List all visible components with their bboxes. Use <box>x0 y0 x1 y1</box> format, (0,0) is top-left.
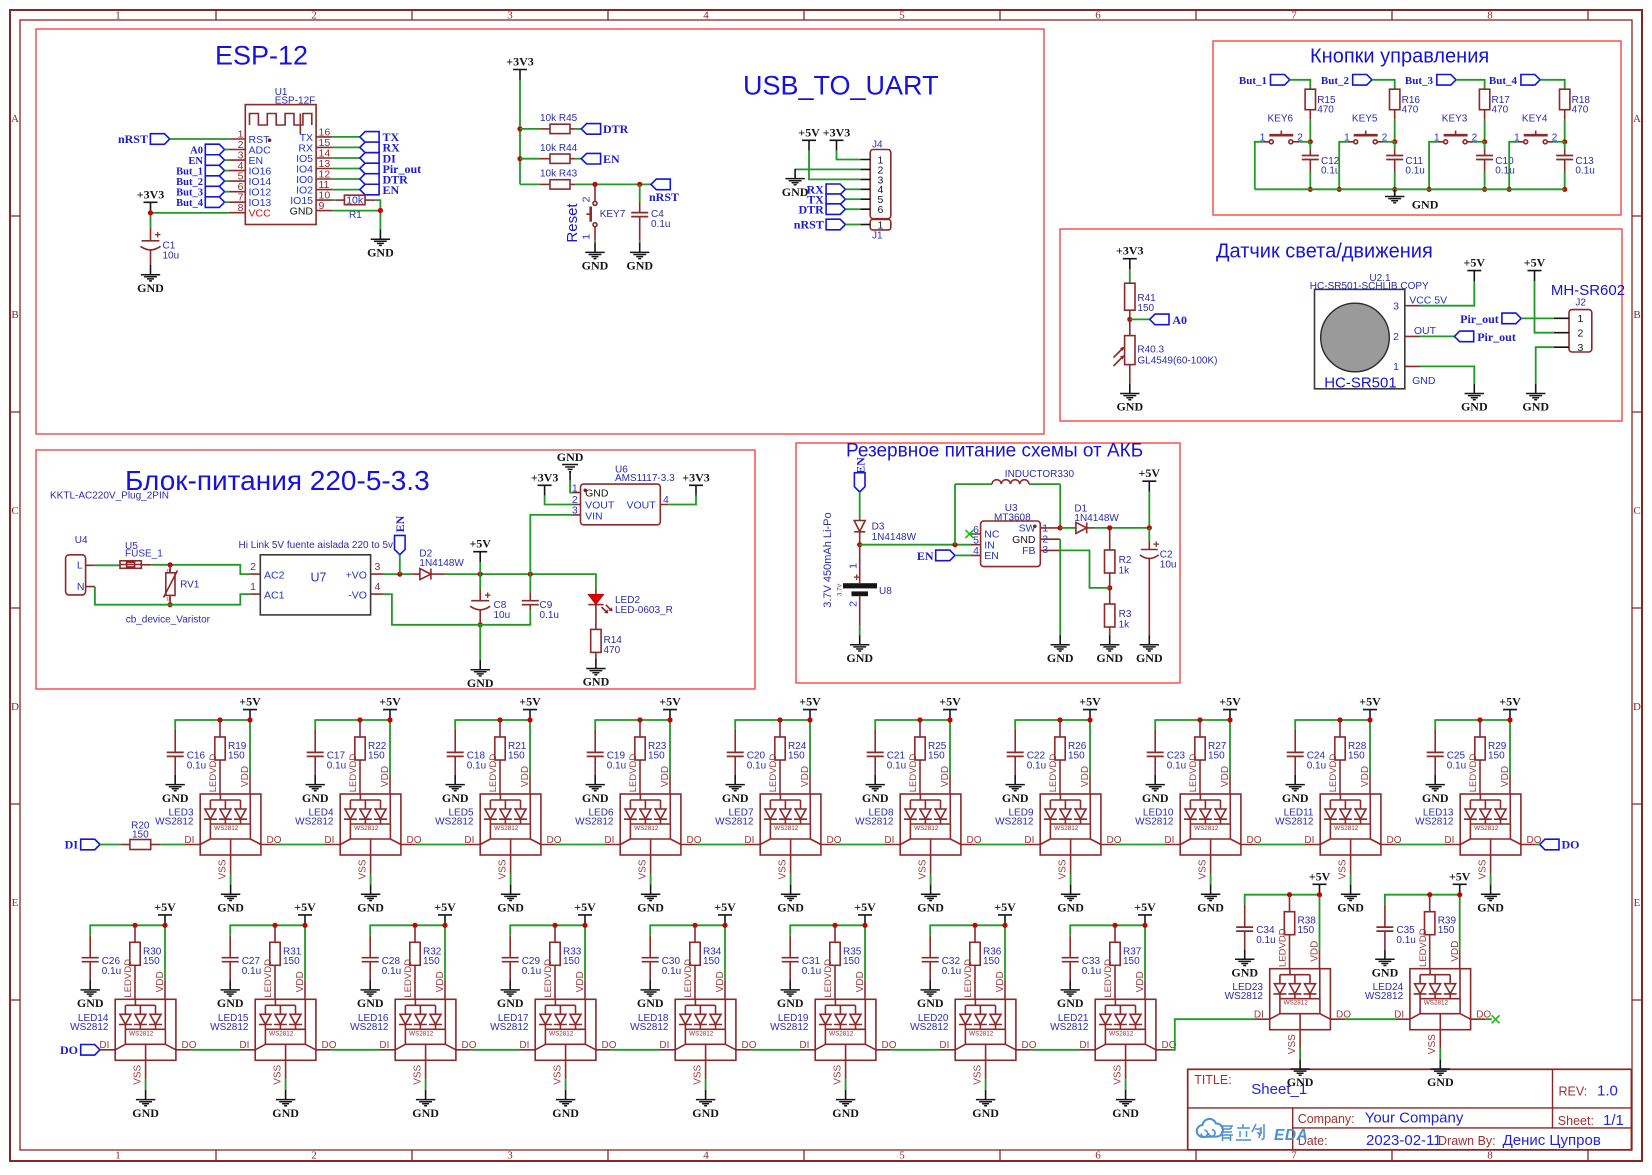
junction <box>412 923 417 928</box>
resistor R44 10k <box>540 143 578 164</box>
resistor R15 470 <box>1305 89 1336 119</box>
resistor R30 150 <box>130 925 162 999</box>
svg-text:470: 470 <box>604 645 621 656</box>
ground <box>217 885 244 915</box>
LED LED5 WS2812 <box>435 754 562 885</box>
junction <box>952 542 957 547</box>
wire <box>1536 844 1540 846</box>
ground <box>442 775 469 805</box>
resistor R35 150 <box>830 925 862 999</box>
svg-text:1: 1 <box>1578 313 1584 325</box>
svg-text:But_1: But_1 <box>1239 75 1267 87</box>
svg-text:Резервное питание схемы от АКБ: Резервное питание схемы от АКБ <box>846 441 1143 462</box>
ground <box>777 980 804 1010</box>
svg-text:LED-0603_R: LED-0603_R <box>615 605 673 616</box>
junction <box>947 717 952 722</box>
wire J2.3 GND <box>1536 347 1554 384</box>
LED LED23 WS2812 <box>1225 928 1352 1059</box>
ground <box>137 265 164 295</box>
capacitor C9 0.1u <box>522 592 559 621</box>
capacitor C21 0.1u <box>867 730 906 775</box>
svg-text:OUT: OUT <box>1414 325 1437 337</box>
power flag +5V <box>379 695 401 720</box>
junction <box>1392 139 1397 144</box>
svg-text:2: 2 <box>250 561 256 573</box>
svg-text:DTR: DTR <box>798 202 824 216</box>
svg-text:DO: DO <box>1562 838 1580 852</box>
junction <box>517 126 522 131</box>
svg-text:RV1: RV1 <box>180 580 200 591</box>
svg-text:WS2812: WS2812 <box>435 817 474 828</box>
svg-text:But_4: But_4 <box>176 198 204 209</box>
resistor R28 150 <box>1335 720 1367 794</box>
svg-text:0.1u: 0.1u <box>187 761 206 772</box>
svg-text:150: 150 <box>788 751 805 762</box>
net flag nRST <box>649 179 679 204</box>
svg-text:0.1u: 0.1u <box>607 761 626 772</box>
LED LED10 WS2812 <box>1135 754 1262 885</box>
capacitor C23 0.1u <box>1147 730 1186 775</box>
svg-text:6: 6 <box>1095 1150 1101 1162</box>
wire N rail <box>95 587 250 605</box>
wire <box>1521 317 1554 319</box>
junction <box>1457 892 1462 897</box>
svg-text:9: 9 <box>319 200 325 212</box>
svg-text:GND: GND <box>585 488 609 500</box>
wire DO-DI <box>416 844 466 846</box>
svg-text:+: + <box>1153 539 1159 551</box>
wire <box>225 170 229 172</box>
svg-text:0.1u: 0.1u <box>1027 761 1046 772</box>
wire <box>1484 142 1486 190</box>
LED LED8 WS2812 <box>855 754 982 885</box>
svg-text:D: D <box>11 701 19 713</box>
svg-text:GND: GND <box>1412 375 1436 387</box>
svg-text:10u: 10u <box>1160 560 1177 571</box>
svg-text:8: 8 <box>1487 1150 1493 1162</box>
wire battery to IN <box>860 544 971 546</box>
resistor R18 470 <box>1560 89 1591 119</box>
capacitor C25 0.1u <box>1427 730 1466 775</box>
svg-text:3.7V 450mAh Li-Po: 3.7V 450mAh Li-Po <box>822 512 834 607</box>
wire +5V rail <box>595 720 670 775</box>
wire VIN <box>530 515 573 574</box>
svg-text:nRST: nRST <box>118 132 148 146</box>
svg-text:4: 4 <box>703 9 709 21</box>
svg-text:1/1: 1/1 <box>1603 1112 1624 1129</box>
svg-text:7: 7 <box>1291 1150 1297 1162</box>
svg-text:10k R44: 10k R44 <box>540 143 578 154</box>
wire +5V rail <box>455 720 530 775</box>
capacitor C26 0.1u <box>82 935 121 980</box>
wire +5V rail <box>175 720 250 775</box>
junction <box>497 717 502 722</box>
ground <box>1197 885 1224 915</box>
svg-text:FB: FB <box>1022 545 1035 557</box>
ground <box>1287 1059 1314 1089</box>
junction <box>387 717 392 722</box>
power flag +5V <box>939 695 961 720</box>
LED LED15 WS2812 <box>210 959 337 1090</box>
net flag DI <box>65 838 100 852</box>
svg-text:10u: 10u <box>163 251 180 262</box>
svg-text:0.1u: 0.1u <box>1575 166 1594 177</box>
inverted ground above U6 <box>557 450 584 480</box>
capacitor C35 0.1u <box>1376 905 1415 950</box>
ground <box>367 230 394 260</box>
wire <box>845 224 860 226</box>
resistor R1 10k <box>336 195 376 221</box>
svg-text:D: D <box>1633 701 1641 713</box>
power flag +5V <box>239 695 261 720</box>
resistor R22 150 <box>355 720 387 794</box>
LED LED4 WS2812 <box>295 754 422 885</box>
capacitor C30 0.1u <box>642 935 681 980</box>
svg-text:A0: A0 <box>190 146 203 157</box>
svg-text:1: 1 <box>1393 361 1399 373</box>
svg-text:470: 470 <box>1492 104 1509 115</box>
svg-text:0.1u: 0.1u <box>1256 935 1275 946</box>
junction <box>247 717 252 722</box>
section box Блок-питания <box>36 450 755 689</box>
wire <box>576 128 582 130</box>
junction <box>917 717 922 722</box>
wire VCC <box>1420 281 1474 306</box>
power flag +5V <box>1359 695 1381 720</box>
junction <box>582 923 587 928</box>
svg-text:0.1u: 0.1u <box>540 610 559 621</box>
ground <box>272 1090 299 1120</box>
ground <box>357 980 384 1010</box>
junction <box>1197 717 1202 722</box>
junction <box>1127 317 1132 322</box>
svg-text:3: 3 <box>1578 342 1584 354</box>
junction <box>1058 525 1063 530</box>
sensor U2.1 HC-SR501 <box>1310 273 1447 391</box>
title block <box>1188 1069 1632 1150</box>
wire FB <box>1060 550 1110 588</box>
capacitor C8 10u <box>470 590 510 626</box>
junction <box>1087 717 1092 722</box>
net flag But_2 <box>1321 75 1372 88</box>
svg-text:But_2: But_2 <box>1321 75 1350 87</box>
capacitor C2 10u <box>1140 539 1177 635</box>
LED LED2 <box>588 590 673 629</box>
svg-text:SW: SW <box>1019 523 1036 535</box>
ground <box>692 1090 719 1120</box>
ground <box>357 885 384 915</box>
power flag +5V <box>1219 695 1241 720</box>
svg-text:J1: J1 <box>872 231 883 242</box>
wire key left leg <box>1509 142 1518 190</box>
svg-text:4: 4 <box>375 581 381 593</box>
junction <box>1337 187 1342 192</box>
wire DO-DI <box>1256 844 1306 846</box>
junction <box>217 717 222 722</box>
svg-text:4: 4 <box>703 1150 709 1162</box>
power flag +5V <box>799 695 821 720</box>
net flag TX <box>360 130 400 144</box>
svg-text:2: 2 <box>311 1150 317 1162</box>
wire +5V rail <box>370 925 445 980</box>
svg-text:Датчик света/движения: Датчик света/движения <box>1216 241 1433 263</box>
junction <box>378 208 383 213</box>
svg-text:Pir_out: Pir_out <box>1477 330 1516 344</box>
wire <box>100 844 121 846</box>
svg-text:u: u <box>167 568 170 574</box>
svg-text:150: 150 <box>1298 925 1315 936</box>
LED LED21 WS2812 <box>1050 959 1177 1090</box>
svg-text:Sheet:: Sheet: <box>1558 1114 1594 1128</box>
connector J1 <box>860 219 891 241</box>
capacitor C22 0.1u <box>1007 730 1046 775</box>
wire +5V rail <box>1155 720 1230 775</box>
wire pin12 <box>333 178 360 180</box>
LED LED17 WS2812 <box>490 959 617 1090</box>
power flag +3V3 <box>682 470 710 495</box>
svg-text:EN: EN <box>393 515 407 532</box>
resistor R34 150 <box>690 925 722 999</box>
svg-text:R1: R1 <box>349 210 362 221</box>
junction <box>1482 187 1487 192</box>
net flag But_3 <box>1405 75 1456 88</box>
wire DO-DI <box>1396 844 1446 846</box>
svg-text:150: 150 <box>563 956 580 967</box>
svg-text:150: 150 <box>132 829 149 840</box>
wire <box>955 484 1060 545</box>
svg-text:2023-02-11: 2023-02-11 <box>1366 1132 1442 1149</box>
svg-text:WS2812: WS2812 <box>630 1022 669 1033</box>
svg-text:J4: J4 <box>872 139 883 150</box>
junction <box>807 717 812 722</box>
svg-text:0.1u: 0.1u <box>1447 761 1466 772</box>
junction <box>1112 923 1117 928</box>
junction <box>1107 525 1112 530</box>
svg-text:DO: DO <box>60 1043 78 1057</box>
diode D1 1N4148W <box>1060 504 1119 534</box>
capacitor C27 0.1u <box>222 935 261 980</box>
svg-text:AMS1117-3.3: AMS1117-3.3 <box>615 473 675 484</box>
wire <box>1309 142 1311 190</box>
net flag EN <box>188 155 224 167</box>
svg-text:VIN: VIN <box>585 510 603 522</box>
svg-text:1N4148W: 1N4148W <box>419 558 464 569</box>
svg-text:0.1u: 0.1u <box>747 761 766 772</box>
svg-text:1: 1 <box>580 234 592 240</box>
wire LED23.DO to LED24.DI <box>1345 1018 1395 1020</box>
ground <box>497 885 524 915</box>
svg-text:470: 470 <box>1572 104 1589 115</box>
svg-text:DTR: DTR <box>603 122 629 136</box>
key KEY7 Reset <box>580 184 625 240</box>
junction <box>148 210 153 215</box>
svg-text:+VO: +VO <box>346 569 367 581</box>
ground <box>626 243 653 273</box>
svg-text:KEY5: KEY5 <box>1352 114 1378 125</box>
wire DO-DI <box>471 1049 521 1051</box>
wire <box>1130 318 1150 320</box>
wire +5V rail <box>445 574 596 590</box>
svg-text:0.1u: 0.1u <box>382 966 401 977</box>
svg-text:KEY6: KEY6 <box>1268 114 1294 125</box>
junction <box>862 923 867 928</box>
resistor R29 150 <box>1475 720 1507 794</box>
wire DO-DI <box>1031 1049 1081 1051</box>
junction <box>397 572 402 577</box>
svg-text:B: B <box>1633 309 1640 321</box>
wire OUT <box>1420 335 1454 337</box>
wire DO-DI <box>556 844 606 846</box>
resistor R36 150 <box>970 925 1002 999</box>
svg-text:But_2: But_2 <box>176 177 203 188</box>
wire LED21.DO to LED23.DI <box>1171 1019 1255 1050</box>
svg-text:EN: EN <box>917 549 934 563</box>
svg-text:150: 150 <box>983 956 1000 967</box>
svg-text:150: 150 <box>1348 751 1365 762</box>
capacitor C31 0.1u <box>782 935 821 980</box>
wire <box>1372 80 1395 89</box>
net flag RX <box>806 182 845 196</box>
svg-text:B: B <box>11 309 18 321</box>
svg-text:HC-SR501-SCHLIB COPY: HC-SR501-SCHLIB COPY <box>1310 281 1429 292</box>
wire <box>225 159 229 161</box>
logo JLC EDA <box>1197 1119 1223 1137</box>
svg-text:1N4148W: 1N4148W <box>872 532 917 543</box>
junction <box>528 572 533 577</box>
ground <box>1116 384 1143 414</box>
svg-text:7: 7 <box>1291 9 1297 21</box>
wire VOUT <box>668 496 696 505</box>
resistor R39 150 <box>1425 895 1457 969</box>
power flag +5V <box>154 900 176 925</box>
ground <box>1136 635 1163 665</box>
svg-text:A: A <box>11 113 19 125</box>
junction <box>1317 892 1322 897</box>
capacitor C13 0.1u <box>1556 150 1595 177</box>
capacitor C10 0.1u <box>1476 150 1515 177</box>
net flag But_1 <box>176 165 224 177</box>
power flag +5V <box>1449 869 1471 894</box>
key KEY4 <box>1514 114 1558 144</box>
wire pin13 <box>333 168 360 170</box>
svg-text:WS2812: WS2812 <box>995 817 1034 828</box>
wire DO-DI <box>191 1049 241 1051</box>
svg-text:WS2812: WS2812 <box>1135 817 1174 828</box>
junction <box>272 923 277 928</box>
junction <box>1392 187 1397 192</box>
svg-text:470: 470 <box>1317 104 1334 115</box>
ground <box>162 775 189 805</box>
ground <box>77 980 104 1010</box>
wire pin14 <box>333 157 360 159</box>
wire <box>1456 80 1485 89</box>
wire key right leg <box>1474 141 1485 143</box>
junction <box>722 923 727 928</box>
wire <box>955 554 971 556</box>
svg-text:0.1u: 0.1u <box>1396 935 1415 946</box>
wire <box>1394 142 1396 190</box>
wire +5V rail <box>1385 895 1460 950</box>
svg-text:U7: U7 <box>311 571 327 585</box>
capacitor C17 0.1u <box>307 730 346 775</box>
junction <box>1227 717 1232 722</box>
net flag DTR <box>581 122 628 136</box>
ground <box>862 775 889 805</box>
wire key left leg <box>1429 142 1438 190</box>
net flag EN <box>581 152 620 166</box>
net flag A0 <box>190 144 224 156</box>
svg-text:10u: 10u <box>494 610 511 621</box>
svg-text:WS2812: WS2812 <box>855 817 894 828</box>
svg-text:INDUCTOR330: INDUCTOR330 <box>1005 469 1075 480</box>
wire <box>399 555 401 574</box>
svg-text:Drawn By:: Drawn By: <box>1438 1134 1496 1148</box>
svg-text:150: 150 <box>648 751 665 762</box>
power flag +5V <box>714 900 736 925</box>
svg-text:KEY3: KEY3 <box>1442 114 1468 125</box>
wire <box>1484 119 1486 142</box>
resistor R27 150 <box>1195 720 1227 794</box>
svg-text:150: 150 <box>1208 751 1225 762</box>
svg-text:MH-SR602: MH-SR602 <box>1551 282 1625 299</box>
junction <box>1057 717 1062 722</box>
resistor R20 150 <box>121 820 161 849</box>
ground <box>972 1090 999 1120</box>
ground <box>1047 635 1074 665</box>
resistor R19 150 <box>215 720 247 794</box>
wire key right leg <box>1554 141 1565 143</box>
svg-text:8: 8 <box>238 202 244 214</box>
svg-text:WS2812: WS2812 <box>770 1022 809 1033</box>
resistor R37 150 <box>1110 925 1142 999</box>
wire <box>845 188 860 190</box>
LED LED19 WS2812 <box>770 959 897 1090</box>
wire +5V rail <box>315 720 390 775</box>
fuse U5 FUSE_1 <box>120 541 163 568</box>
net flag DI <box>360 151 396 165</box>
svg-text:N: N <box>77 581 85 593</box>
capacitor C12 0.1u <box>1302 150 1341 177</box>
resistor R16 470 <box>1390 89 1421 119</box>
svg-text:KKTL-AC220V_Plug_2PIN: KKTL-AC220V_Plug_2PIN <box>50 491 169 502</box>
wire <box>1535 281 1554 333</box>
ground <box>1422 775 1449 805</box>
ground <box>1461 384 1488 414</box>
junction <box>1562 139 1567 144</box>
ground <box>917 885 944 915</box>
svg-text:0.1u: 0.1u <box>662 966 681 977</box>
svg-text:1: 1 <box>115 9 121 21</box>
wire DO-DI <box>751 1049 801 1051</box>
junction <box>478 622 483 627</box>
net flag But_1 <box>1239 75 1290 88</box>
ground <box>777 885 804 915</box>
svg-text:WS2812: WS2812 <box>910 1022 949 1033</box>
svg-text:150: 150 <box>228 751 245 762</box>
power flag +5V <box>294 900 316 925</box>
svg-text:0.1u: 0.1u <box>327 761 346 772</box>
svg-text:+: + <box>854 572 860 584</box>
ground <box>497 980 524 1010</box>
capacitor C1 <box>141 228 180 265</box>
wire key right leg <box>1384 141 1395 143</box>
ground <box>467 660 494 690</box>
LED LED9 WS2812 <box>995 754 1122 885</box>
ground <box>217 980 244 1010</box>
net flag EN <box>917 549 955 563</box>
wire <box>845 198 860 200</box>
ground <box>1231 950 1258 980</box>
